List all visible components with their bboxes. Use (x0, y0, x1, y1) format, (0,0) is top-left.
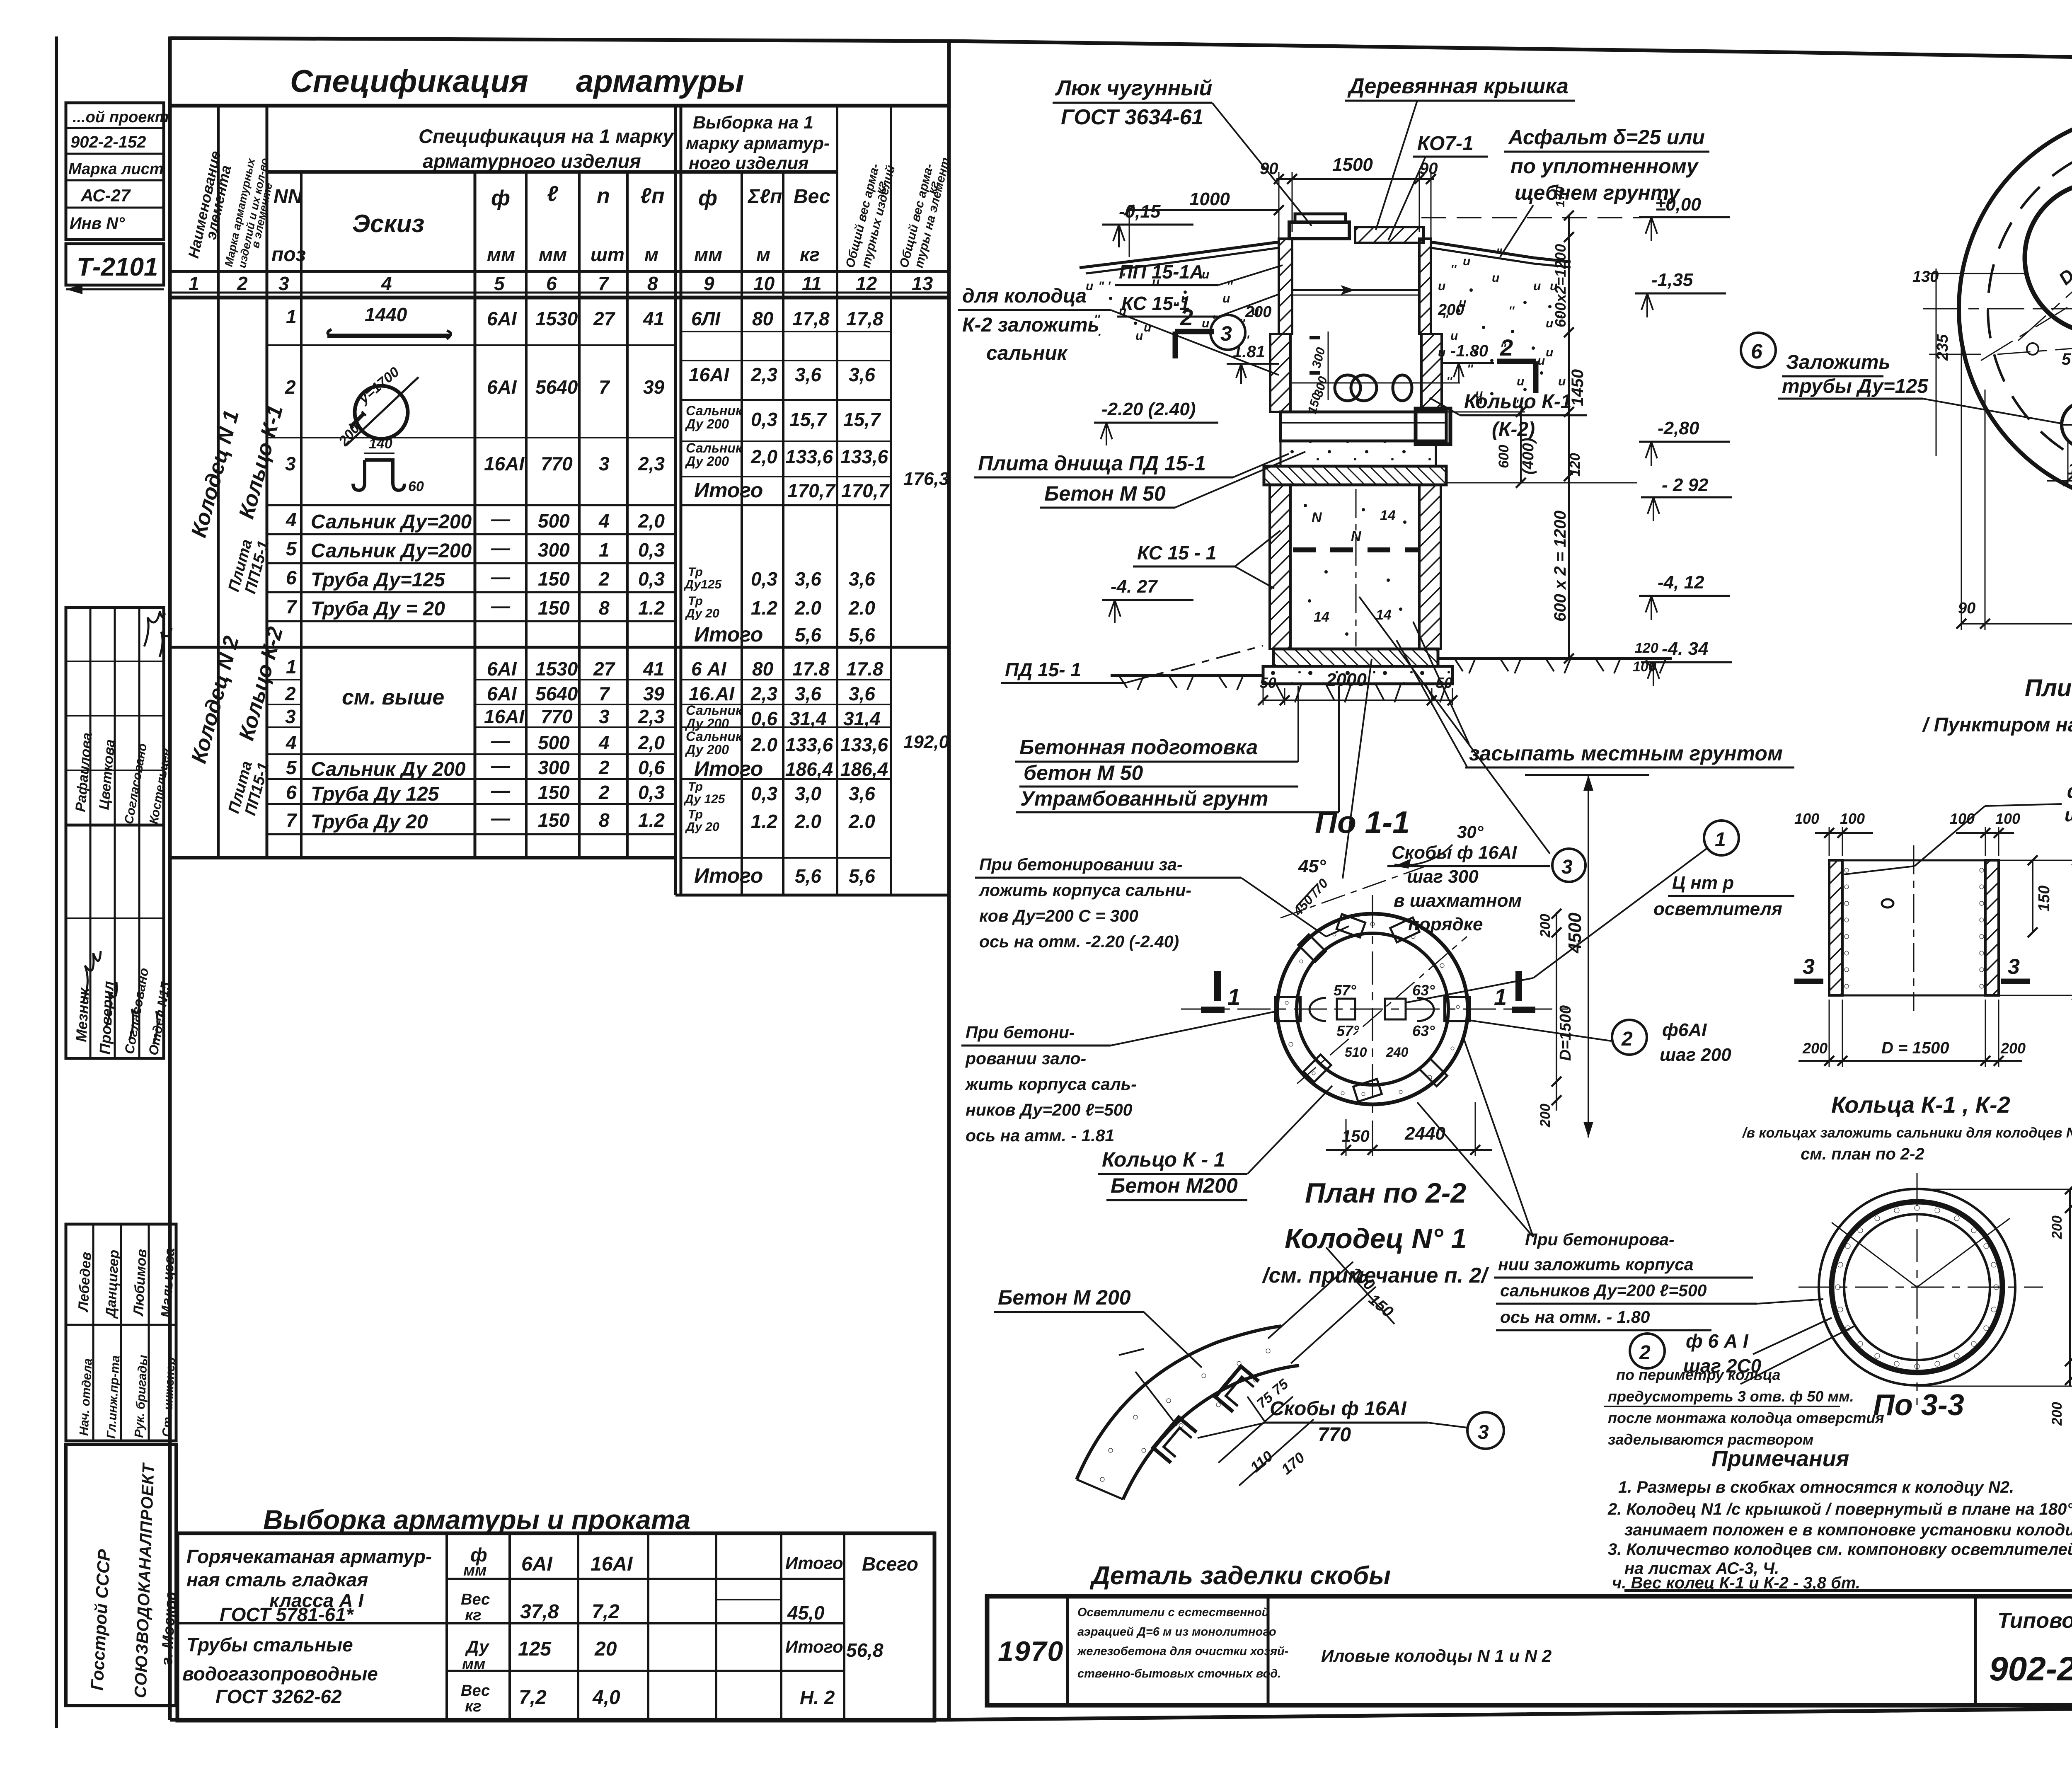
svg-text:600х2=1200: 600х2=1200 (1552, 244, 1569, 327)
svg-text:Спецификация: Спецификация (290, 64, 528, 99)
inner dashed circle (1988, 140, 2072, 478)
svg-text:300: 300 (538, 757, 570, 778)
stamp box: project refs (66, 103, 164, 240)
svg-text:125: 125 (518, 1638, 552, 1660)
signature block A (66, 608, 164, 825)
mid wall right (1421, 334, 1442, 412)
arc band (1077, 1326, 1281, 1479)
svg-text:Ду 200: Ду 200 (685, 742, 729, 757)
svg-text:Выборка на 1: Выборка на 1 (693, 113, 813, 133)
svg-text:4: 4 (286, 509, 297, 530)
svg-text:902-2-152: 902-2-152 (70, 133, 146, 151)
svg-text:ф: ф (698, 186, 717, 210)
svg-text:1.81: 1.81 (1233, 343, 1265, 361)
svg-text:1: 1 (189, 273, 199, 294)
svg-text:63°: 63° (1412, 1022, 1435, 1039)
svg-text:600 х 2 = 1200: 600 х 2 = 1200 (1551, 511, 1569, 622)
svg-text:7: 7 (286, 809, 298, 831)
interior guide line with arrow (1292, 289, 1419, 291)
svg-text:16АI: 16АI (591, 1553, 633, 1575)
hatch marks under foundation (1276, 685, 1446, 702)
svg-text:" ': " ' (1098, 279, 1111, 293)
svg-text:/см. примечание п. 2/: /см. примечание п. 2/ (1262, 1264, 1489, 1288)
svg-text:шаг 200: шаг 200 (1660, 1045, 1731, 1065)
dimension 1000 (1129, 209, 1279, 211)
svg-text:6 АI: 6 АI (691, 658, 727, 680)
svg-text:3: 3 (1478, 1421, 1489, 1443)
right dim (2069, 1189, 2071, 1386)
circled 1 with centre osvetlitelya (1704, 821, 1739, 855)
svg-text:3,0: 3,0 (795, 783, 821, 804)
svg-text:и: и (1463, 254, 1470, 268)
ring K-1 right block (1416, 409, 1450, 444)
svg-text:2.0: 2.0 (848, 811, 875, 832)
svg-text:Всего: Всего (862, 1553, 918, 1575)
svg-text:200: 200 (2049, 1402, 2065, 1426)
svg-text:'': '' (1496, 246, 1502, 260)
svg-text:/ Пунктиром нанесен внутренний: / Пунктиром нанесен внутренний диаметр к… (1922, 714, 2072, 736)
svg-text:5,6: 5,6 (849, 865, 875, 887)
D=1500 dim bottom (1961, 327, 1962, 630)
svg-text:Заложить: Заложить (1786, 351, 1890, 373)
svg-text:—: — (491, 807, 511, 829)
title block (987, 1590, 2072, 1741)
svg-text:0,3: 0,3 (751, 409, 777, 430)
svg-text:Тр: Тр (688, 594, 703, 608)
svg-text:Спецификация на 1 марку: Спецификация на 1 марку (419, 125, 675, 147)
svg-text:осветлителя: осветлителя (1653, 899, 1782, 919)
svg-text:3: 3 (599, 453, 610, 474)
svg-text:1530: 1530 (535, 308, 578, 329)
svg-text:600: 600 (1496, 445, 1512, 468)
svg-text:3,6: 3,6 (849, 568, 875, 590)
koltsa K-1 K-2 heading and po 3-3 (1604, 1092, 2072, 1448)
svg-text:заделываются раствором: заделываются раствором (1608, 1431, 1813, 1448)
svg-text:-1.80: -1.80 (1450, 342, 1488, 360)
svg-text:27: 27 (593, 658, 616, 680)
svg-text:14: 14 (1314, 609, 1329, 625)
main cross-section drawing (958, 74, 2062, 879)
svg-text:и: и (1450, 329, 1458, 343)
svg-text:130: 130 (1912, 268, 1939, 286)
ground line right of footing (1438, 657, 1672, 660)
svg-text:ось на отм. - 1.80: ось на отм. - 1.80 (1500, 1307, 1650, 1326)
svg-text:16АI: 16АI (484, 453, 525, 474)
svg-text:'': '' (1508, 304, 1515, 318)
svg-text:6: 6 (1751, 340, 1763, 363)
svg-text:15,7: 15,7 (789, 409, 828, 430)
svg-text:Труба Ду 125: Труба Ду 125 (311, 783, 440, 805)
svg-text:3: 3 (285, 706, 296, 727)
svg-text:2,3: 2,3 (750, 364, 777, 385)
circled 6 with label (1741, 333, 1776, 368)
svg-text:5: 5 (286, 757, 297, 778)
svg-text:1.2: 1.2 (751, 597, 777, 619)
svg-text:120: 120 (1635, 640, 1658, 656)
svg-text:Итого: Итого (785, 1553, 843, 1573)
svg-text:5,6: 5,6 (849, 624, 875, 646)
svg-text:—: — (491, 755, 511, 776)
svg-text:14: 14 (1376, 607, 1392, 623)
svg-text:2,0: 2,0 (750, 446, 777, 467)
svg-text:11: 11 (802, 273, 822, 294)
svg-text:17.8: 17.8 (846, 658, 884, 680)
svg-text:Сальник: Сальник (686, 703, 743, 718)
svg-text:'': '' (1446, 375, 1452, 388)
svg-text:КО7-1: КО7-1 (1417, 133, 1474, 155)
svg-text:Итого: Итого (694, 479, 763, 502)
svg-text:Ду 20: Ду 20 (685, 607, 719, 620)
svg-text:водогазопроводные: водогазопроводные (182, 1663, 378, 1685)
svg-text:План по 2-2: План по 2-2 (1305, 1177, 1466, 1209)
manhole hatch box (1289, 222, 1349, 239)
small center pluses on horizontal axis (2027, 343, 2038, 355)
svg-text:1500: 1500 (1332, 155, 1373, 175)
svg-text:кг: кг (465, 1698, 482, 1715)
svg-text:Итого: Итого (694, 757, 763, 780)
foundation slab (1263, 666, 1452, 684)
svg-text:Кольцо К-1: Кольцо К-1 (1464, 391, 1571, 413)
svg-text:1.2: 1.2 (751, 811, 777, 832)
svg-text:5: 5 (286, 538, 297, 559)
svg-text:150: 150 (538, 597, 570, 619)
svg-text:К-2 заложить: К-2 заложить (962, 314, 1099, 336)
dim 600 (400) near ring (1520, 412, 1522, 483)
svg-text:3,6: 3,6 (849, 683, 875, 704)
svg-text:по периметру кольца: по периметру кольца (1616, 1366, 1781, 1383)
svg-text:2: 2 (598, 568, 610, 590)
svg-text:4: 4 (598, 732, 610, 753)
outer circle (1959, 111, 2072, 507)
svg-text:3: 3 (1803, 955, 1815, 979)
svg-text:4: 4 (381, 273, 392, 294)
svg-text:и: и (1537, 354, 1545, 368)
svg-text:—: — (491, 508, 511, 530)
svg-text:0,3: 0,3 (751, 568, 777, 590)
svg-text:Н. 2: Н. 2 (800, 1687, 835, 1708)
svg-text:1: 1 (286, 656, 297, 678)
ground surface right slope (1431, 242, 1571, 262)
bottom dim 50 2000 50 (1263, 700, 1452, 701)
dims left: 130 235 (1929, 273, 2024, 274)
svg-text:сальник: сальник (986, 342, 1068, 364)
svg-text:186,4: 186,4 (785, 758, 833, 780)
big institute box (66, 1445, 176, 1706)
right vertical dim line (1568, 215, 1570, 660)
svg-text:6АI: 6АI (487, 658, 517, 680)
svg-text:150: 150 (538, 782, 570, 803)
4500 dim (1588, 775, 1589, 1138)
svg-text:-4. 27: -4. 27 (1111, 576, 1158, 597)
svg-text:железобетона для очистки хо: железобетона для очистки хозяй- (1077, 1645, 1288, 1658)
svg-text:Ц нт р: Ц нт р (1672, 873, 1734, 893)
circled 2 label (1630, 1334, 1665, 1368)
circled 3 (1552, 849, 1585, 882)
svg-text:105: 105 (2068, 460, 2072, 478)
svg-text:192,0: 192,0 (903, 732, 949, 752)
svg-text:7,2: 7,2 (519, 1687, 547, 1709)
centerlines (1372, 895, 1373, 1148)
svg-text:N: N (1312, 510, 1322, 525)
mid wall left (1270, 334, 1290, 412)
svg-text:бетон М 50: бетон М 50 (1024, 761, 1143, 784)
svg-text:200: 200 (1802, 1040, 1828, 1057)
leader arrow top left (1135, 1372, 1177, 1426)
svg-text:200: 200 (1438, 301, 1464, 319)
svg-text:3: 3 (599, 706, 610, 727)
svg-text:2,3: 2,3 (638, 706, 665, 727)
top-right plan: plita PP15-1A (1912, 27, 2072, 736)
svg-text:2: 2 (285, 376, 296, 398)
neck wall left (1279, 239, 1292, 334)
svg-text:Сальник: Сальник (686, 729, 743, 744)
svg-text:после монтажа колодца отверст: после монтажа колодца отверстия (1608, 1409, 1884, 1426)
svg-text:16АI: 16АI (484, 706, 525, 727)
svg-text:Примечания: Примечания (1711, 1446, 1849, 1471)
svg-text:поз: поз (271, 244, 306, 266)
svg-text:20: 20 (594, 1638, 617, 1660)
grid horizontals (170, 104, 949, 108)
top dims (1829, 827, 1830, 856)
right dims (2032, 860, 2033, 932)
svg-text:ровании зало-: ровании зало- (965, 1049, 1086, 1068)
svg-text:6: 6 (546, 273, 557, 294)
svg-text:5,6: 5,6 (795, 624, 821, 646)
svg-text:0,3: 0,3 (751, 783, 777, 804)
small dim chain inside left wall (1328, 332, 1329, 400)
svg-text:арматуры: арматуры (576, 64, 744, 99)
svg-text:1.2: 1.2 (638, 597, 665, 619)
svg-text:нии заложить корпуса: нии заложить корпуса (1498, 1255, 1694, 1274)
svg-text:Утрамбованный грунт: Утрамбованный грунт (1020, 787, 1268, 810)
svg-text:3: 3 (285, 453, 296, 474)
svg-text:Сальник Ду=200: Сальник Ду=200 (311, 511, 472, 533)
svg-text:При бетонировании за-: При бетонировании за- (979, 855, 1183, 874)
staples (1153, 1417, 1197, 1463)
svg-text:12: 12 (856, 273, 877, 294)
svg-text:39: 39 (643, 376, 665, 398)
svg-text:140: 140 (369, 436, 392, 452)
svg-text:ников Ду=200 ℓ=500: ников Ду=200 ℓ=500 (966, 1100, 1133, 1119)
svg-text:6: 6 (286, 782, 297, 803)
svg-text:м: м (756, 244, 770, 265)
svg-text:8: 8 (599, 597, 610, 619)
svg-text:-4, 12: -4, 12 (1658, 572, 1704, 593)
svg-text:Колодец N° 1: Колодец N° 1 (1285, 1223, 1467, 1254)
svg-text:Ду 200: Ду 200 (685, 454, 729, 469)
svg-text:200: 200 (2049, 1215, 2065, 1239)
svg-text:ф 6 А I: ф 6 А I (1686, 1330, 1749, 1352)
svg-text:-2.20 (2.40): -2.20 (2.40) (1101, 399, 1196, 419)
svg-text:Деревянная крышка: Деревянная крышка (1347, 74, 1569, 98)
manhole lid (1295, 214, 1346, 222)
svg-text:80: 80 (752, 658, 774, 680)
svg-text:Итого: Итого (694, 864, 763, 887)
svg-text:и: и (1438, 279, 1445, 293)
svg-text:ГОСТ 5781-61*: ГОСТ 5781-61* (220, 1604, 354, 1625)
svg-text:133,6: 133,6 (840, 734, 888, 755)
svg-text:0,3: 0,3 (638, 539, 665, 561)
svg-text:марку арматур-: марку арматур- (686, 133, 830, 153)
svg-text:NN: NN (274, 186, 303, 208)
circled 2 with f6AI (1612, 1020, 1647, 1055)
dim below circle (1346, 1119, 1347, 1156)
left stamp strip (66, 103, 179, 1706)
pipe circles in upper chamber (1335, 375, 1360, 401)
svg-text:100: 100 (1995, 810, 2020, 827)
svg-text:Трубы стальные: Трубы стальные (186, 1634, 353, 1656)
svg-text:3,6: 3,6 (849, 364, 875, 385)
svg-text:2: 2 (1500, 334, 1513, 361)
svg-text:63°: 63° (1412, 982, 1435, 999)
svg-text:ственно-бытовых сточных вод.: ственно-бытовых сточных вод. (1077, 1667, 1281, 1680)
svg-text:1: 1 (286, 306, 297, 327)
svg-text:Ду 125: Ду 125 (683, 792, 726, 806)
svg-text:30°: 30° (1457, 822, 1484, 842)
svg-text:1: 1 (599, 539, 610, 561)
svg-text:50: 50 (1260, 674, 1276, 691)
svg-text:3: 3 (278, 273, 289, 294)
svg-text:ПП 15-1А: ПП 15-1А (1119, 261, 1203, 283)
svg-text:2. Колодец N1 /с крышкой / пов: 2. Колодец N1 /с крышкой / повернутый в … (1607, 1500, 2072, 1518)
svg-text:37,8: 37,8 (520, 1601, 559, 1623)
svg-text:41: 41 (643, 308, 664, 329)
svg-text:510: 510 (1345, 1045, 1367, 1060)
svg-text:1. Размеры в скобках относят: 1. Размеры в скобках относятся к колодцу… (1618, 1478, 2014, 1496)
svg-text:2: 2 (285, 683, 296, 704)
stamp box T-2101 (66, 244, 164, 285)
primechaniya notes (1607, 1446, 2072, 1592)
svg-text:По 3-3: По 3-3 (1873, 1389, 1964, 1422)
sketch pos3 bent bar (353, 460, 404, 490)
svg-text:7: 7 (598, 273, 610, 294)
svg-text:ф6АI: ф6АI (1662, 1020, 1707, 1040)
svg-text:и: и (1135, 329, 1143, 343)
svg-text:Труба Ду 20: Труба Ду 20 (311, 811, 428, 833)
svg-text:5: 5 (494, 273, 505, 294)
svg-text:Итого: Итого (694, 623, 763, 646)
svg-text:57°: 57° (1336, 1022, 1359, 1039)
svg-text:7: 7 (286, 596, 298, 617)
svg-text:по уплотненному: по уплотненному (1510, 155, 1699, 178)
svg-text:и: и (1222, 292, 1230, 305)
bottom-left vyborka table (177, 1504, 934, 1721)
svg-text:16АI: 16АI (689, 364, 729, 385)
svg-text:150: 150 (538, 809, 570, 831)
svg-text:и: и (1202, 317, 1209, 330)
svg-text:Выборка арматуры и прок: Выборка арматуры и проката (263, 1504, 690, 1535)
svg-text:Бетон М 200: Бетон М 200 (998, 1286, 1131, 1309)
svg-text:7: 7 (599, 376, 610, 398)
svg-text:2000: 2000 (1326, 670, 1367, 690)
svg-text:см. план по 2-2: см. план по 2-2 (1801, 1145, 1924, 1163)
svg-text:n: n (597, 184, 610, 208)
svg-text:2: 2 (598, 782, 610, 803)
ring speckles (1285, 922, 1460, 1096)
svg-text:200: 200 (1537, 914, 1553, 938)
svg-text:Деталь заделки скобы: Деталь заделки скобы (1089, 1561, 1391, 1590)
water line dashed (1293, 547, 1419, 552)
svg-text:200: 200 (1537, 1104, 1553, 1128)
svg-text:Плита днища ПД 15-1: Плита днища ПД 15-1 (978, 452, 1206, 475)
right vertical dims 200 D1500 200 (1556, 912, 1557, 1111)
svg-text:5640: 5640 (535, 376, 578, 398)
sketch pos2 circle (355, 386, 408, 439)
svg-text:ℓ: ℓ (547, 182, 559, 206)
svg-text:Ду: Ду (465, 1637, 490, 1656)
svg-text:ков Ду=200 С = 300: ков Ду=200 С = 300 (979, 906, 1138, 925)
svg-text:Бетонная подготовка: Бетонная подготовка (1019, 736, 1258, 759)
svg-text:Ду 200: Ду 200 (685, 416, 729, 431)
svg-text:133,6: 133,6 (785, 446, 833, 467)
svg-text:Труба Ду=125: Труба Ду=125 (311, 569, 445, 591)
svg-text:170,7: 170,7 (841, 480, 890, 501)
signature block C names (66, 1224, 176, 1441)
interior centerline (1356, 489, 1357, 646)
svg-text:9: 9 (704, 273, 714, 294)
svg-text:5640: 5640 (535, 683, 578, 704)
svg-text:мм: мм (463, 1562, 487, 1579)
svg-text:2,3: 2,3 (750, 683, 777, 704)
svg-text:мм: мм (694, 244, 722, 265)
svg-text:Сальник: Сальник (686, 441, 743, 455)
svg-text:Осветлители с естественной: Осветлители с естественной (1077, 1606, 1269, 1619)
svg-text:14: 14 (1380, 508, 1396, 523)
ground line left of footing (1111, 674, 1263, 677)
svg-text:100: 100 (1840, 810, 1865, 827)
svg-text:ная сталь гладкая: ная сталь гладкая (186, 1569, 368, 1590)
svg-text:ложить корпуса сальни-: ложить корпуса сальни- (978, 881, 1191, 900)
svg-text:3,6: 3,6 (795, 364, 821, 385)
svg-text:6АI: 6АI (521, 1553, 553, 1575)
svg-text:1.2: 1.2 (638, 809, 665, 831)
svg-text:Вес: Вес (794, 186, 830, 208)
svg-text:По 1-1: По 1-1 (1315, 805, 1410, 840)
row lines right group (681, 331, 891, 332)
svg-text:90: 90 (1260, 160, 1278, 178)
svg-text:Бетон М200: Бетон М200 (1111, 1174, 1238, 1197)
svg-text:(К-2): (К-2) (1492, 419, 1535, 441)
svg-text:порядке: порядке (1408, 914, 1483, 934)
svg-text:(400): (400) (1520, 438, 1537, 474)
svg-text:Бетон М 50: Бетон М 50 (1044, 482, 1166, 505)
svg-text:80: 80 (752, 308, 774, 329)
svg-text:ПД 15- 1: ПД 15- 1 (1005, 659, 1081, 680)
svg-text:аэрацией Д=6 м из монолитн: аэрацией Д=6 м из монолитного (1077, 1625, 1276, 1639)
svg-text:КС 15-1: КС 15-1 (1121, 293, 1190, 314)
svg-text:2: 2 (598, 757, 610, 778)
svg-text:45,0: 45,0 (787, 1602, 825, 1624)
svg-text:щебнем грунту: щебнем грунту (1515, 181, 1681, 204)
rebar dots (1835, 1205, 1999, 1369)
svg-text:17,8: 17,8 (792, 308, 830, 329)
svg-text:...ой проект: ...ой проект (73, 109, 169, 126)
svg-text:133,6: 133,6 (840, 446, 888, 467)
svg-text:0,3: 0,3 (638, 782, 665, 803)
ring K-1 band (1280, 412, 1446, 441)
svg-text:1440: 1440 (365, 304, 407, 325)
svg-text:17.8: 17.8 (792, 658, 830, 680)
svg-text:ф: ф (491, 186, 510, 210)
svg-text:Типовой проект: Типовой проект (1997, 1609, 2072, 1633)
svg-text:шаг 200: шаг 200 (2065, 804, 2072, 825)
svg-text:200: 200 (2000, 1040, 2026, 1057)
ring inner (1297, 933, 1448, 1085)
svg-text:0,3: 0,3 (638, 568, 665, 590)
svg-text:засыпать местным грунтом: засыпать местным грунтом (1469, 742, 1783, 765)
svg-text:6АI: 6АI (487, 683, 517, 704)
svg-text:ось на атм. - 1.81: ось на атм. - 1.81 (966, 1126, 1114, 1145)
